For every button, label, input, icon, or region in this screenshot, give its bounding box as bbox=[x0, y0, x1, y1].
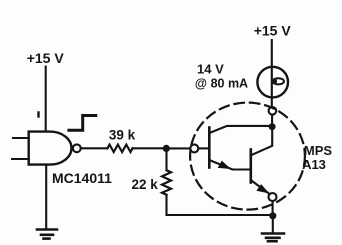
wire emitter terminal down to ground node dot bbox=[272, 201, 274, 216]
wire resistor R1 to node A bbox=[133, 147, 167, 149]
wire resistor R2 down and right to emitter ground node bbox=[167, 195, 270, 215]
emitter terminal pin circle bbox=[269, 193, 277, 201]
svg-text:+15 V: +15 V bbox=[27, 50, 65, 66]
label MPS bbox=[304, 143, 333, 158]
lamp DS1 circle bbox=[257, 67, 288, 98]
NAND gate U1 body bbox=[29, 132, 72, 165]
label +15 V (left supply) bbox=[27, 50, 65, 66]
gate input pin wire (lower) bbox=[12, 158, 29, 160]
svg-text:MC14011: MC14011 bbox=[52, 170, 112, 186]
svg-text:39 k: 39 k bbox=[109, 128, 136, 143]
svg-text:+15 V: +15 V bbox=[254, 23, 292, 39]
wire node A down to resistor R2 bbox=[165, 148, 167, 170]
wire from gate VSS pin down to ground bbox=[45, 165, 47, 229]
transistor Q2 collector bbox=[251, 127, 272, 156]
svg-text:@ 80 mA: @ 80 mA bbox=[195, 77, 248, 91]
label 14 V bbox=[197, 62, 224, 77]
label 22 k bbox=[131, 177, 158, 192]
collector terminal pin circle bbox=[269, 107, 277, 115]
wire ground node down to ground bbox=[272, 216, 274, 233]
label 39 k bbox=[109, 128, 136, 143]
transistor Q1 collector bbox=[209, 126, 272, 133]
label MC14011 bbox=[52, 170, 112, 186]
transistor Q1 base bar bbox=[208, 128, 211, 168]
ground (right) bbox=[262, 234, 284, 242]
dashed package outline circle bbox=[190, 103, 305, 210]
lamp filament blob bbox=[273, 78, 284, 84]
transistor Q1 emitter with arrow bbox=[209, 160, 251, 170]
wire collector terminal through lamp to +15 V bbox=[271, 40, 273, 107]
label +15 V (right supply) bbox=[254, 23, 292, 39]
schmitt-trigger step symbol bbox=[69, 116, 96, 131]
label @ 80 mA bbox=[195, 77, 248, 91]
svg-text:22 k: 22 k bbox=[131, 177, 158, 192]
wire collector dot up to collector terminal bbox=[271, 115, 273, 127]
ground (left) bbox=[37, 230, 57, 239]
wire node A to base terminal bbox=[166, 147, 190, 149]
wire gate output to resistor R1 bbox=[81, 147, 108, 149]
resistor R2 22 k bbox=[162, 170, 171, 195]
collector junction dot bbox=[269, 123, 276, 130]
stray mark (scan tick) bbox=[37, 113, 39, 117]
svg-text:MPS: MPS bbox=[304, 143, 333, 158]
resistor R1 39 k bbox=[108, 145, 133, 152]
transistor Q2 emitter arrowhead bbox=[257, 185, 268, 193]
node A junction dot bbox=[163, 145, 170, 152]
transistor Q1 emitter arrowhead bbox=[219, 161, 230, 168]
gate input pin wire (upper) bbox=[13, 137, 29, 139]
transistor Q2 base bar bbox=[250, 150, 253, 183]
svg-text:A13: A13 bbox=[302, 157, 326, 172]
ground node junction dot bbox=[269, 212, 276, 219]
transistor Q2 emitter with arrow bbox=[251, 180, 270, 194]
label A13 bbox=[302, 157, 326, 172]
svg-text:14 V: 14 V bbox=[197, 62, 224, 77]
wire from left +15 V down to gate VDD pin bbox=[45, 67, 47, 132]
gate output inversion bubble bbox=[73, 144, 81, 152]
base terminal pin circle bbox=[190, 144, 198, 152]
base wire into Q1 bbox=[198, 147, 209, 149]
